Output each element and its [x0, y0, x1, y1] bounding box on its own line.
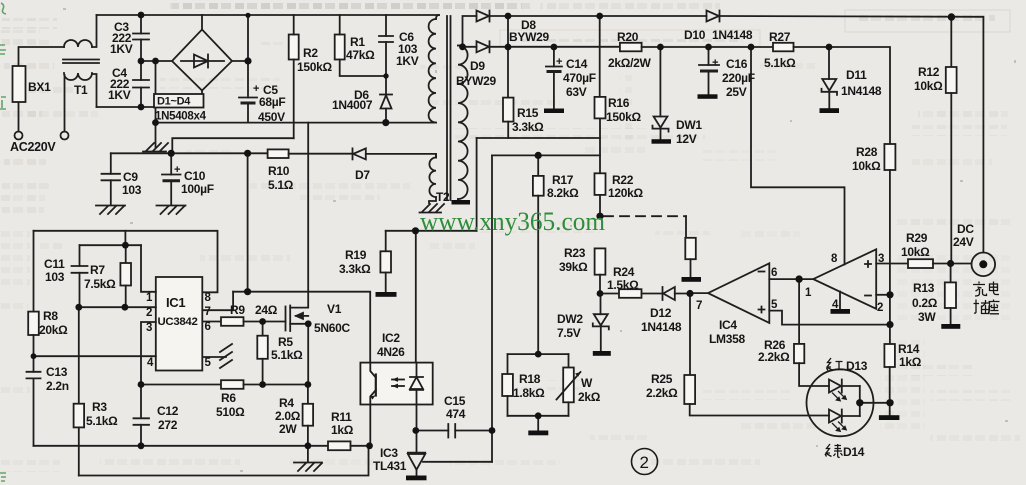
- optocoupler IC2 light arrows: [392, 377, 404, 388]
- ground bar DW1: [652, 139, 672, 144]
- bridge rectifier D1~D4: [172, 15, 232, 95]
- resistor R10: [268, 149, 289, 158]
- svg-text:C15: C15: [444, 394, 466, 408]
- label C14: [556, 56, 596, 99]
- svg-text:1N4148: 1N4148: [712, 28, 753, 42]
- capacitor C6: [379, 15, 393, 76]
- node C6/R1/D6: [383, 73, 388, 78]
- diode D7: [353, 148, 437, 159]
- wire pin3 lead: [141, 322, 156, 417]
- wire R20 right: [642, 46, 773, 48]
- node IC2 cathode C15: [412, 427, 419, 434]
- resistor R7: [120, 245, 131, 307]
- wire secondary to D8/D9: [463, 16, 477, 47]
- label C10: [174, 164, 214, 196]
- figure number circled 2: [632, 449, 658, 475]
- optocoupler IC2 phototransistor: [370, 363, 376, 405]
- label R9: [230, 303, 278, 317]
- svg-text:R10: R10: [268, 164, 290, 178]
- node LED cathodes: [856, 399, 863, 406]
- svg-text:1N4148: 1N4148: [641, 320, 682, 334]
- wire dashed link to R21: [604, 215, 686, 217]
- svg-text:63V: 63V: [566, 85, 587, 99]
- label D9: [456, 59, 496, 88]
- label R22: [608, 173, 643, 200]
- svg-text:C10: C10: [184, 169, 206, 183]
- svg-text:R12: R12: [918, 65, 940, 79]
- svg-text:T2: T2: [436, 190, 450, 204]
- svg-text:D1~D4: D1~D4: [157, 96, 191, 108]
- wire R11 right: [351, 445, 370, 447]
- resistor R6: [221, 380, 244, 389]
- label C15: [444, 394, 466, 421]
- svg-text:BX1: BX1: [28, 80, 51, 94]
- capacitor C10 (electrolytic): [162, 153, 181, 205]
- wire C12 lower: [140, 425, 142, 446]
- svg-text:1KV: 1KV: [108, 88, 131, 102]
- diode D10: [707, 11, 720, 22]
- node R14 bottom ground: [886, 399, 893, 406]
- svg-text:DC: DC: [957, 222, 974, 236]
- node C3/C4 midpoint: [138, 58, 145, 65]
- wire node to R24: [600, 293, 619, 295]
- node R16 top rail: [596, 13, 603, 20]
- wire VCC rail: [233, 292, 370, 363]
- svg-text:1KV: 1KV: [110, 42, 133, 56]
- resistor R8: [28, 312, 39, 335]
- wire pin4 lead: [34, 355, 156, 357]
- svg-text:R7: R7: [90, 263, 105, 277]
- wire pin1 lead: [141, 245, 156, 292]
- node pin3 R6 row: [138, 381, 145, 388]
- svg-text:IC3: IC3: [380, 446, 398, 460]
- svg-text:150kΩ: 150kΩ: [606, 110, 641, 124]
- resistor R5: [257, 322, 268, 385]
- svg-text:R19: R19: [345, 248, 367, 262]
- svg-text:BYW29: BYW29: [509, 30, 549, 44]
- wire AC node to bridge: [141, 60, 248, 62]
- label IC3: [373, 446, 407, 473]
- svg-text:C11: C11: [44, 257, 65, 271]
- label C5: [253, 83, 285, 124]
- svg-text:R5: R5: [278, 335, 293, 349]
- svg-text:7: 7: [696, 300, 702, 312]
- label D11: [841, 68, 882, 98]
- primary ground rail: [156, 122, 437, 124]
- ground bar LED return: [879, 415, 900, 420]
- node bridge DC right: [244, 57, 251, 64]
- node D6 anode rail: [382, 119, 389, 126]
- wire RC stub: [124, 231, 126, 245]
- optocoupler IC2 4N26 box: [360, 363, 432, 405]
- ground bar C14: [544, 109, 564, 114]
- svg-text:AC220V: AC220V: [10, 140, 56, 154]
- capacitor C5: [239, 15, 257, 123]
- wire RC node jog: [80, 244, 142, 246]
- wire R14 to LED node: [889, 367, 891, 415]
- wire IC2 emitter to R11 node: [369, 405, 371, 446]
- svg-text:1N4148: 1N4148: [841, 84, 882, 98]
- svg-text:IC1: IC1: [166, 295, 185, 310]
- ground bar D11: [820, 108, 840, 113]
- label D10: [684, 28, 753, 42]
- ground (hatched) R4: [294, 446, 322, 471]
- glyph 电: [990, 282, 1000, 295]
- svg-text:120kΩ: 120kΩ: [608, 186, 643, 200]
- label R28: [852, 145, 881, 173]
- pin labels IC4: [696, 253, 884, 314]
- wire VCC riser to IC1 rail: [247, 153, 249, 291]
- transformer T2 core: [447, 16, 451, 200]
- node bridge AC left: [152, 58, 159, 65]
- svg-text:R18: R18: [519, 372, 541, 386]
- svg-text:R16: R16: [608, 96, 630, 110]
- node C3 top rail: [138, 12, 145, 19]
- svg-text:6: 6: [205, 321, 211, 333]
- wire R10 to D7: [289, 153, 353, 155]
- svg-text:510Ω: 510Ω: [216, 405, 245, 419]
- svg-text:DW1: DW1: [676, 118, 702, 132]
- wire R24 to D12: [642, 293, 664, 295]
- node C5 riser top rail: [245, 13, 250, 18]
- svg-text:C14: C14: [566, 57, 588, 71]
- wire R3 column: [78, 307, 80, 404]
- transformer T2 secondary winding: [458, 46, 468, 201]
- svg-text:R13: R13: [913, 281, 935, 295]
- svg-text:R23: R23: [564, 246, 586, 260]
- resistor R17: [533, 176, 544, 196]
- wire pin2 lead: [876, 294, 890, 296]
- svg-text:39kΩ: 39kΩ: [559, 260, 588, 274]
- resistor R14: [884, 344, 895, 367]
- svg-text:1: 1: [146, 292, 153, 304]
- glyph 红 (red): [827, 358, 844, 371]
- ground bar IC3: [406, 476, 427, 481]
- svg-text:R3: R3: [92, 400, 107, 414]
- resistor R26: [794, 344, 804, 363]
- wire R17 riser: [537, 155, 539, 176]
- capacitor C13: [27, 372, 41, 379]
- glyph 充: [973, 282, 987, 297]
- svg-text:IC2: IC2: [382, 331, 400, 345]
- svg-text:LM358: LM358: [709, 332, 745, 346]
- label R4: [275, 396, 301, 436]
- wire pin7 output: [690, 292, 708, 294]
- wire R26 column: [798, 279, 800, 344]
- svg-text:5: 5: [205, 357, 212, 369]
- label R8: [39, 309, 68, 337]
- node C11 bottom pin2: [75, 304, 82, 311]
- diode D9: [477, 41, 490, 52]
- node R19/IC2 LED anode: [412, 227, 419, 234]
- svg-text:R11: R11: [331, 410, 352, 424]
- svg-text:V1: V1: [327, 302, 342, 316]
- node DW1 top: [657, 44, 664, 51]
- wire: top AC/DC rail: [97, 14, 440, 16]
- node R9/R5/gate: [259, 318, 266, 325]
- label R11: [331, 410, 354, 437]
- IC3 TL431: [408, 453, 492, 476]
- svg-text:R8: R8: [43, 309, 58, 323]
- label R26: [758, 338, 790, 364]
- LED D13 red: [829, 380, 860, 402]
- label R13: [912, 281, 938, 324]
- glyph 插: [974, 300, 991, 314]
- svg-text:C12: C12: [157, 404, 179, 418]
- svg-text:1kΩ: 1kΩ: [899, 355, 922, 369]
- svg-text:R22: R22: [612, 173, 634, 187]
- LED D14 green: [829, 410, 860, 433]
- wire FB row lower: [492, 154, 600, 156]
- svg-text:1kΩ: 1kΩ: [331, 423, 354, 437]
- resistor R19: [380, 231, 391, 292]
- svg-text:0.2Ω: 0.2Ω: [912, 296, 938, 310]
- ground bar R21: [682, 277, 702, 282]
- ground bar C16: [698, 94, 718, 99]
- resistor R16 riser: [599, 16, 601, 97]
- wire FB column: [599, 118, 601, 173]
- node R17 to R18/W top: [535, 351, 542, 358]
- resistor R29: [908, 259, 933, 268]
- label D6: [332, 88, 373, 112]
- svg-text:3.3kΩ: 3.3kΩ: [512, 120, 544, 134]
- svg-text:R15: R15: [517, 106, 539, 120]
- wire rail join D8/D9: [507, 16, 509, 98]
- svg-text:100µF: 100µF: [181, 182, 214, 196]
- resistor R2: [289, 15, 299, 138]
- wire VREF top: [34, 231, 218, 292]
- node VCC rail tap: [244, 288, 251, 295]
- svg-text:5N60C: 5N60C: [314, 321, 350, 335]
- svg-text:10kΩ: 10kΩ: [901, 245, 930, 259]
- label R29: [901, 231, 930, 259]
- resistor R3: [74, 404, 85, 428]
- IC1 UC3842 box: [156, 277, 203, 371]
- svg-text:68µF: 68µF: [259, 95, 285, 109]
- label box D1~D4: [154, 94, 204, 108]
- ground bar divider: [528, 416, 548, 436]
- node VCC riser top: [244, 150, 251, 157]
- svg-text:C13: C13: [46, 365, 68, 379]
- ground (hatched) pin5: [220, 344, 232, 368]
- node R5 bottom: [259, 381, 266, 388]
- svg-text:150kΩ: 150kΩ: [297, 60, 332, 74]
- svg-text:4: 4: [147, 357, 154, 369]
- resistor R27: [773, 43, 794, 52]
- svg-text:D13: D13: [846, 359, 868, 373]
- wire source column: [307, 324, 309, 385]
- ground bar R19: [376, 292, 397, 297]
- svg-text:D12: D12: [650, 306, 672, 320]
- label D12: [641, 306, 682, 334]
- resistor R22: [595, 173, 606, 195]
- label W: [578, 376, 601, 404]
- svg-text:R25: R25: [651, 372, 673, 386]
- wire pin2 lead: [79, 306, 156, 308]
- svg-text:272: 272: [158, 418, 178, 432]
- ground (hatched) bridge minus: [143, 143, 168, 152]
- zener D11: [822, 47, 838, 108]
- ground bar R13: [941, 324, 960, 329]
- wire R25 to green LED: [690, 404, 829, 416]
- diode D6: [380, 76, 392, 123]
- ground (hatched) C10: [157, 206, 186, 215]
- wire N to T1: [64, 75, 66, 132]
- svg-text:470µF: 470µF: [563, 71, 596, 85]
- node R18/W bottom ground: [535, 412, 542, 419]
- label D1~D4: [155, 96, 207, 123]
- label R19: [339, 248, 371, 276]
- wire R6 row: [140, 384, 221, 386]
- wire C9 to C10 node: [111, 152, 171, 154]
- svg-text:7.5kΩ: 7.5kΩ: [84, 277, 116, 291]
- transformer T2 aux winding: [429, 154, 436, 203]
- svg-text:2.2kΩ: 2.2kΩ: [758, 350, 790, 364]
- ground bar secondary: [452, 200, 471, 205]
- svg-text:D14: D14: [843, 445, 865, 459]
- ground (hatched) aux winding: [420, 204, 445, 213]
- svg-text:3.3kΩ: 3.3kΩ: [339, 262, 371, 276]
- svg-text:R29: R29: [906, 231, 928, 245]
- label C11: [44, 257, 65, 284]
- svg-text:T1: T1: [74, 83, 88, 97]
- label DW2: [557, 312, 583, 340]
- glyph 绿 (green): [825, 444, 843, 458]
- node C14 top: [551, 44, 558, 51]
- wire bridge minus drop: [155, 61, 157, 147]
- op-amp IC4a: [708, 263, 769, 323]
- label R6: [216, 391, 245, 419]
- svg-text:1.5kΩ: 1.5kΩ: [607, 278, 639, 292]
- LED circle D13/D14: [807, 369, 874, 436]
- resistor R18 / pot W loop: [502, 354, 580, 416]
- svg-text:1: 1: [805, 287, 812, 299]
- wire bottom row: [34, 445, 329, 447]
- label V1: [314, 302, 350, 335]
- pin labels IC1: [146, 292, 212, 369]
- capacitor C4: [133, 61, 149, 107]
- resistor R13: [945, 264, 956, 325]
- svg-text:BYW29: BYW29: [456, 74, 496, 88]
- AC terminal L: [15, 132, 23, 140]
- node C4 bottom: [138, 104, 145, 111]
- ground pin4: [831, 292, 851, 314]
- transformer T2 primary winding: [429, 15, 439, 123]
- label R27: [764, 30, 796, 70]
- svg-text:474: 474: [446, 407, 466, 421]
- svg-text:10kΩ: 10kΩ: [852, 159, 881, 173]
- svg-text:25V: 25V: [726, 85, 747, 99]
- label C12: [157, 404, 179, 432]
- svg-text:TL431: TL431: [373, 459, 407, 473]
- svg-text:24Ω: 24Ω: [255, 303, 278, 317]
- capacitor C15: [417, 424, 493, 438]
- resistor R23: [595, 248, 606, 274]
- capacitor C3: [133, 15, 149, 61]
- svg-text:C16: C16: [726, 57, 748, 71]
- svg-text:5: 5: [771, 299, 778, 311]
- node secondary to D8/D9: [459, 43, 466, 50]
- wire left rail lower: [33, 378, 35, 445]
- label C16: [712, 57, 755, 99]
- svg-text:2.2kΩ: 2.2kΩ: [646, 386, 678, 400]
- wire FB drop to LED node: [476, 138, 478, 231]
- green margin marks: [0, 3, 6, 481]
- svg-text:3: 3: [146, 322, 152, 334]
- resistor R11: [328, 441, 351, 450]
- svg-text:R27: R27: [769, 30, 791, 44]
- capacitor C9: [102, 153, 121, 205]
- capacitor C16 (electrolytic): [699, 47, 719, 94]
- svg-text:www.xny365.com: www.xny365.com: [420, 206, 605, 236]
- node D11 top: [826, 44, 833, 51]
- resistor R12: [946, 17, 957, 264]
- label C13: [46, 365, 69, 393]
- wire R3 to return: [78, 427, 80, 475]
- node primary DC- rail: [152, 119, 159, 126]
- wire VCC row: [171, 152, 267, 154]
- optocoupler IC2 LED: [410, 363, 423, 405]
- wire pin5 jog: [769, 311, 890, 325]
- svg-text:R17: R17: [552, 173, 574, 187]
- zener DW1: [653, 47, 669, 140]
- svg-text:W: W: [581, 376, 593, 390]
- wire IC2 LED cathode down: [416, 405, 418, 453]
- node R29/R13/R12 jack: [947, 260, 954, 267]
- label R14: [898, 342, 922, 369]
- wire VCC step to pin7: [202, 292, 233, 311]
- svg-text:4N26: 4N26: [377, 345, 405, 359]
- label C9: [122, 170, 142, 197]
- resistor R16: [595, 97, 606, 119]
- mosfet V1 5N60C: [286, 306, 309, 332]
- svg-text:2kΩ/2W: 2kΩ/2W: [608, 56, 651, 70]
- svg-text:DW2: DW2: [557, 312, 583, 326]
- AC terminal N: [61, 132, 69, 140]
- svg-text:3: 3: [878, 253, 884, 265]
- svg-text:R28: R28: [856, 145, 878, 159]
- node R11/IC2 emitter: [366, 442, 373, 449]
- label R7: [84, 263, 116, 291]
- resistor R20: [620, 43, 642, 52]
- label IC4: [709, 318, 745, 346]
- label R15: [512, 106, 544, 134]
- node 1 opamp outputs: [795, 275, 802, 282]
- node C10 top: [168, 150, 175, 157]
- svg-text:6: 6: [771, 267, 777, 279]
- svg-text:5.1kΩ: 5.1kΩ: [86, 414, 118, 428]
- node FB divider R17 tap: [535, 152, 542, 159]
- node R7 top jog: [122, 242, 129, 249]
- svg-text:R2: R2: [303, 46, 318, 60]
- svg-text:450V: 450V: [258, 110, 285, 124]
- node opamp pin7 D12: [686, 290, 693, 297]
- svg-text:8.2kΩ: 8.2kΩ: [547, 186, 579, 200]
- svg-text:47kΩ: 47kΩ: [346, 48, 375, 62]
- label R20: [608, 30, 651, 70]
- label DC 24V: [953, 222, 974, 249]
- capacitor C12: [134, 418, 150, 425]
- capacitor C14 (electrolytic): [546, 47, 562, 109]
- node pin5 R28 column: [886, 321, 893, 328]
- label C6: [396, 30, 419, 68]
- diode D12: [663, 287, 691, 300]
- label R25: [646, 372, 678, 400]
- fuse BX1: [13, 47, 65, 132]
- node R23/R24/DW2: [597, 290, 604, 297]
- node R12 top rail: [948, 13, 955, 20]
- diode D8: [477, 11, 490, 22]
